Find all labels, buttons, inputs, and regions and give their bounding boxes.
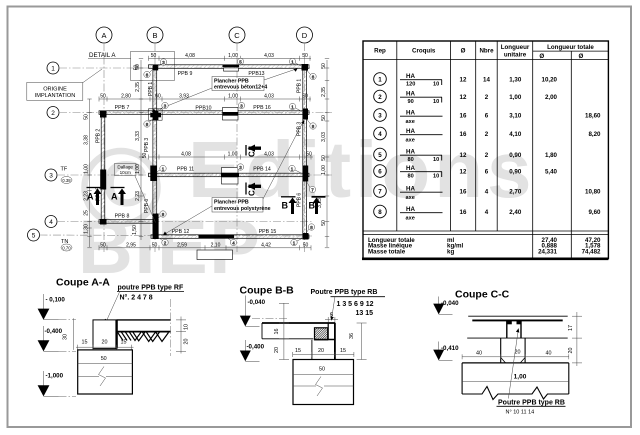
column D/2 — [303, 109, 309, 120]
dimension line mid row1-2 — [99, 94, 311, 102]
svg-text:15: 15 — [295, 348, 301, 354]
coupe C-C footing — [462, 363, 569, 400]
svg-text:Ø: Ø — [539, 53, 544, 60]
svg-text:80: 80 — [408, 174, 414, 180]
watermark — [78, 125, 536, 290]
svg-text:axe: axe — [406, 137, 415, 143]
svg-text:90: 90 — [408, 99, 414, 105]
svg-text:1,00: 1,00 — [228, 94, 238, 100]
origine implantation box — [27, 69, 102, 100]
svg-text:6: 6 — [485, 168, 489, 175]
svg-text:120: 120 — [406, 82, 415, 88]
svg-text:4,08: 4,08 — [185, 53, 195, 59]
rebar schedule table — [362, 41, 608, 259]
dimension chain tick marks — [87, 58, 329, 248]
svg-text:9,60: 9,60 — [588, 209, 601, 216]
svg-text:A: A — [111, 192, 118, 202]
svg-text:PPB 3: PPB 3 — [144, 138, 150, 152]
detail A inner dims — [134, 65, 140, 71]
svg-text:PPB10: PPB10 — [195, 106, 211, 112]
svg-text:Croquis: Croquis — [412, 48, 436, 55]
coupe C-C slab lines — [467, 316, 568, 338]
svg-text:0,90: 0,90 — [509, 168, 522, 175]
coupe B-B dim 36 — [349, 323, 367, 360]
svg-text:-0,040: -0,040 — [441, 300, 459, 307]
svg-text:20: 20 — [274, 347, 280, 353]
axis A — [96, 27, 112, 252]
svg-text:kg: kg — [447, 248, 454, 255]
table row 4 — [374, 127, 601, 143]
svg-text:24,331: 24,331 — [538, 248, 557, 255]
svg-text:IMPLANTATION: IMPLANTATION — [35, 93, 76, 99]
svg-text:PPB 15: PPB 15 — [259, 229, 277, 235]
svg-text:4,08: 4,08 — [181, 152, 191, 158]
svg-text:TF: TF — [61, 167, 68, 173]
section arrow A-A — [87, 188, 127, 206]
svg-text:PPB13: PPB13 — [248, 71, 264, 77]
axis 2 — [47, 107, 332, 119]
node 1 at D/5 — [291, 239, 302, 246]
svg-text:PPB 11: PPB 11 — [177, 167, 194, 173]
svg-text:PPB 16: PPB 16 — [253, 105, 271, 111]
dimension line row2-3 — [142, 152, 313, 160]
coupe A-A level -1,000 — [38, 371, 76, 396]
dimension chain right x327 — [317, 60, 327, 247]
svg-text:Nbre: Nbre — [479, 48, 494, 55]
svg-text:HA: HA — [406, 73, 415, 80]
node 8 at D/5 — [306, 224, 315, 233]
beam PPB 12 + PPB 15 row5 — [151, 229, 309, 239]
svg-text:4: 4 — [49, 219, 53, 226]
svg-text:8,20: 8,20 — [588, 131, 601, 138]
svg-text:20: 20 — [568, 348, 574, 354]
svg-text:unitaire: unitaire — [504, 52, 527, 59]
coupe C-C stem — [507, 321, 522, 338]
svg-text:4,03: 4,03 — [264, 152, 274, 158]
svg-text:13 15: 13 15 — [356, 310, 374, 317]
svg-text:2: 2 — [378, 94, 382, 101]
svg-text:2,35: 2,35 — [135, 82, 141, 92]
svg-text:Coupe B-B: Coupe B-B — [240, 285, 295, 297]
svg-text:PPB 7: PPB 7 — [115, 105, 130, 111]
svg-text:B: B — [152, 31, 157, 40]
svg-text:2: 2 — [485, 152, 489, 159]
node 8 at D/2 — [307, 120, 316, 130]
svg-text:PPB 12: PPB 12 — [172, 229, 190, 235]
svg-text:Dallage: Dallage — [117, 165, 133, 170]
svg-text:0.38: 0.38 — [62, 178, 71, 183]
rebar mark row2 near C — [222, 108, 238, 121]
svg-text:50: 50 — [321, 220, 327, 226]
svg-text:2: 2 — [51, 110, 55, 117]
coupe B-B slab — [262, 323, 335, 339]
svg-text:12: 12 — [460, 168, 467, 175]
beam PPB 1 / PPB 3 / PPB 6 vertical at D — [297, 66, 307, 238]
svg-text:axe: axe — [406, 215, 415, 221]
coupe B-B level -0,040 — [240, 296, 288, 327]
svg-text:poutre PPB type RF: poutre PPB type RF — [118, 285, 184, 292]
axis C — [229, 27, 245, 252]
svg-text:7: 7 — [378, 188, 382, 195]
svg-text:20: 20 — [318, 348, 324, 354]
svg-text:50: 50 — [303, 242, 309, 248]
svg-text:PPB 1: PPB 1 — [148, 82, 154, 96]
svg-text:PPB 2: PPB 2 — [96, 129, 102, 143]
svg-text:16: 16 — [460, 188, 467, 195]
svg-text:Coupe A-A: Coupe A-A — [56, 277, 110, 289]
coupe A-A dim 30 left — [63, 318, 74, 350]
coupe B-B dim 5 — [325, 313, 338, 323]
column D/3 — [303, 166, 309, 182]
table row 7 — [374, 185, 601, 201]
node 1 at B/3 — [157, 165, 167, 172]
svg-text:50: 50 — [321, 115, 327, 121]
node 3 at C/3 — [237, 164, 243, 170]
svg-text:50: 50 — [306, 152, 312, 158]
svg-text:15: 15 — [340, 348, 346, 354]
svg-text:C: C — [248, 190, 257, 196]
coupe C-C dim 40 20 40 — [462, 350, 569, 360]
svg-text:12: 12 — [460, 152, 467, 159]
rebar mark row3 near C — [221, 168, 239, 185]
beam PPB 9 + PPB13 row1 — [149, 65, 310, 77]
node 6 at B/1 — [144, 70, 153, 78]
beam PPB 7 + PPB10 + PPB 16 row2 — [99, 105, 309, 114]
svg-text:D: D — [302, 31, 308, 40]
table row 6 — [374, 165, 558, 180]
svg-text:10: 10 — [184, 324, 190, 330]
svg-text:2,40: 2,40 — [509, 209, 522, 216]
svg-text:HA: HA — [406, 110, 415, 117]
svg-text:Rep: Rep — [374, 48, 386, 55]
node 7 at D/3 — [307, 182, 316, 193]
svg-text:5: 5 — [330, 313, 333, 319]
svg-text:B: B — [282, 201, 289, 211]
svg-text:1,80: 1,80 — [545, 152, 558, 159]
column B/4-5 — [153, 214, 159, 240]
svg-text:axe: axe — [406, 119, 415, 125]
svg-text:Masse totale: Masse totale — [368, 248, 406, 255]
svg-text:16: 16 — [274, 329, 280, 335]
coupe A-A ground hatch — [118, 332, 169, 341]
beam PPB 8 row4 — [99, 214, 157, 224]
table row 2 — [374, 90, 558, 105]
coupe B-B footing — [293, 360, 354, 405]
svg-text:15: 15 — [121, 340, 127, 346]
svg-text:1,30: 1,30 — [84, 224, 90, 234]
svg-text:3,33: 3,33 — [135, 131, 141, 141]
svg-text:50: 50 — [302, 94, 308, 100]
svg-text:ORIGINE: ORIGINE — [43, 87, 67, 93]
coupe A-A level -0,100 — [38, 294, 76, 320]
svg-text:50: 50 — [142, 153, 148, 159]
svg-text:1,50: 1,50 — [132, 225, 138, 235]
svg-text:4,10: 4,10 — [509, 131, 522, 138]
rebar mark row1 near C — [223, 65, 240, 71]
svg-text:1,00: 1,00 — [509, 94, 522, 101]
svg-text:50: 50 — [101, 356, 107, 362]
svg-text:10: 10 — [433, 157, 439, 163]
svg-text:entrevous béton12+4: entrevous béton12+4 — [214, 85, 267, 91]
svg-text:1,00: 1,00 — [321, 165, 327, 175]
column D/1 — [302, 64, 309, 71]
beam PPB 2 vertical at A — [96, 111, 105, 223]
svg-text:17: 17 — [568, 325, 574, 331]
coupe B-B poutre RB block — [312, 323, 335, 360]
svg-text:HA: HA — [406, 165, 415, 172]
svg-text:DETAIL A: DETAIL A — [89, 52, 116, 59]
svg-text:2,70: 2,70 — [509, 188, 522, 195]
svg-text:1,00: 1,00 — [514, 374, 527, 381]
svg-text:PPB 8: PPB 8 — [115, 214, 130, 220]
table row 8 — [374, 205, 601, 221]
svg-text:16: 16 — [460, 209, 467, 216]
svg-text:PPB 9: PPB 9 — [178, 71, 193, 77]
svg-text:50: 50 — [151, 53, 157, 59]
node 5 at C/1 — [237, 58, 243, 64]
dallage box — [115, 164, 156, 223]
svg-text:4: 4 — [485, 188, 489, 195]
axis 3 — [45, 169, 332, 181]
svg-text:74,482: 74,482 — [582, 248, 601, 255]
node 1 at D/2 — [289, 103, 302, 111]
dimension line bottom — [99, 242, 311, 250]
axis B — [147, 27, 163, 252]
rebar position bubbles on plan — [144, 58, 316, 245]
section arrow C-C lower — [246, 183, 261, 197]
svg-text:6: 6 — [485, 112, 489, 119]
coupe B-B dim 15 20 15 — [293, 348, 354, 357]
dimension line top row1 — [149, 53, 312, 61]
svg-text:50: 50 — [321, 155, 327, 161]
svg-text:HA: HA — [406, 186, 415, 193]
svg-text:HA: HA — [406, 149, 415, 156]
column B/1 — [153, 65, 158, 71]
detail A label — [88, 52, 131, 59]
svg-text:entrevous polystyrène: entrevous polystyrène — [214, 206, 271, 212]
svg-text:16: 16 — [460, 131, 467, 138]
svg-text:36: 36 — [349, 333, 355, 339]
svg-text:HA: HA — [406, 128, 415, 135]
node 3 at B/2 — [159, 102, 168, 111]
section arrow B-B — [281, 197, 326, 214]
node 1 at D/1 — [289, 58, 301, 66]
svg-text:20: 20 — [102, 340, 108, 346]
svg-text:15: 15 — [82, 340, 88, 346]
svg-text:2,35: 2,35 — [321, 87, 327, 97]
svg-text:Ø: Ø — [461, 48, 466, 55]
svg-text:10,80: 10,80 — [585, 188, 601, 195]
svg-text:3,93: 3,93 — [179, 94, 189, 100]
svg-text:PPB 6: PPB 6 — [144, 199, 150, 213]
table row 5 — [374, 148, 558, 163]
node 6 at D/1 — [307, 71, 316, 80]
svg-text:5,40: 5,40 — [545, 168, 558, 175]
svg-text:6: 6 — [378, 168, 382, 175]
coupe A-A footing — [78, 350, 133, 394]
svg-text:0,90: 0,90 — [509, 152, 522, 159]
svg-text:2: 2 — [485, 131, 489, 138]
svg-text:3: 3 — [49, 173, 53, 180]
coupe A-A dim 10 20 right — [171, 299, 190, 356]
svg-text:12: 12 — [460, 76, 467, 83]
node 8 at B/4 — [158, 211, 166, 219]
rebar mark row5 near C — [197, 235, 234, 260]
svg-text:-0,410: -0,410 — [441, 345, 459, 352]
svg-text:2,95: 2,95 — [126, 242, 136, 248]
svg-text:1,00: 1,00 — [228, 152, 238, 158]
svg-text:8: 8 — [378, 209, 382, 216]
node 8 at B/2 — [144, 119, 153, 128]
svg-text:1: 1 — [378, 76, 382, 83]
svg-text:2,59: 2,59 — [177, 242, 187, 248]
coupe A-A label poutre PPB type RF — [103, 285, 184, 324]
svg-text:5: 5 — [32, 233, 36, 240]
svg-text:Poutre PPB type RB: Poutre PPB type RB — [498, 400, 565, 407]
svg-text:40: 40 — [476, 351, 482, 357]
svg-text:4: 4 — [485, 209, 489, 216]
svg-text:1 3 5 6 9 12: 1 3 5 6 9 12 — [337, 301, 374, 308]
axis D — [297, 27, 313, 252]
svg-text:1,00: 1,00 — [84, 164, 90, 174]
table row 1 — [374, 73, 558, 88]
svg-text:18,60: 18,60 — [585, 112, 601, 119]
coupe C-C level -0,410 — [433, 342, 459, 361]
axis 5 — [28, 229, 313, 241]
plancher PPB polystyrene box — [163, 120, 304, 235]
svg-text:50: 50 — [134, 65, 140, 71]
svg-text:4,03: 4,03 — [264, 94, 274, 100]
coupe A-A poutre section — [93, 320, 117, 349]
svg-text:30: 30 — [63, 334, 69, 340]
svg-text:12: 12 — [460, 94, 467, 101]
svg-text:-0,400: -0,400 — [247, 343, 265, 350]
svg-text:50: 50 — [152, 242, 158, 248]
node 4 at C/5 — [228, 239, 237, 246]
svg-text:80: 80 — [408, 157, 414, 163]
svg-text:Longueur: Longueur — [501, 44, 530, 51]
column A/3 — [100, 170, 106, 190]
svg-text:10: 10 — [433, 99, 439, 105]
table footer totals — [368, 237, 601, 256]
svg-text:HA: HA — [406, 91, 415, 98]
svg-text:4,03: 4,03 — [264, 53, 274, 59]
dimension chain left x89 — [84, 99, 90, 247]
svg-text:C: C — [248, 151, 257, 157]
svg-text:2: 2 — [485, 94, 489, 101]
level TF 0.38 — [61, 167, 73, 184]
svg-text:50: 50 — [302, 53, 308, 59]
column D/5 — [303, 233, 309, 240]
axis 4 — [45, 216, 312, 228]
svg-text:- 0,100: - 0,100 — [46, 297, 66, 304]
svg-text:4,42: 4,42 — [261, 242, 271, 248]
svg-text:PPB 1: PPB 1 — [297, 79, 303, 93]
svg-text:16: 16 — [460, 112, 467, 119]
svg-text:2,80: 2,80 — [121, 94, 131, 100]
svg-text:50: 50 — [84, 114, 90, 120]
svg-text:N° 10 11 14: N° 10 11 14 — [506, 410, 535, 416]
svg-text:50: 50 — [100, 242, 106, 248]
svg-text:Longueur totale: Longueur totale — [547, 44, 594, 51]
svg-text:Plancher PPB: Plancher PPB — [214, 78, 249, 84]
svg-text:A: A — [87, 192, 94, 202]
section arrow C-C upper — [246, 145, 261, 158]
svg-text:14: 14 — [483, 76, 490, 83]
svg-text:60: 60 — [155, 94, 161, 100]
svg-text:2,10: 2,10 — [211, 242, 221, 248]
svg-text:1: 1 — [51, 66, 55, 73]
beam PPB 1 / PPB 3 / PPB 6 vertical at B — [144, 66, 157, 238]
svg-text:-0,040: -0,040 — [248, 299, 266, 306]
coupe C-C dims 17 20 right — [568, 312, 582, 366]
coupe C-C level -0,040 — [433, 297, 459, 315]
svg-text:PPB 14: PPB 14 — [253, 167, 271, 173]
svg-text:Ø: Ø — [578, 53, 583, 60]
column A/2 — [100, 111, 107, 118]
coupe B-B level -0,400 — [240, 340, 265, 361]
level TN 0.70 — [61, 239, 72, 251]
svg-text:10: 10 — [433, 82, 439, 88]
beam PPB 11 + PPB 14 row3 — [149, 167, 310, 177]
svg-text:3,38: 3,38 — [84, 135, 90, 145]
svg-text:-0,400: -0,400 — [45, 328, 63, 335]
coupe C-C pedestal — [501, 338, 525, 363]
svg-text:HA: HA — [406, 206, 415, 213]
svg-text:PPB 6: PPB 6 — [297, 193, 303, 207]
svg-text:1,00: 1,00 — [228, 53, 238, 59]
coupe B-B dims 16 20 — [274, 303, 289, 360]
coupe A-A dim 15 20 15 — [76, 340, 134, 350]
svg-text:C: C — [234, 31, 240, 40]
column B/2 cross — [149, 109, 163, 120]
axis 1 — [47, 62, 312, 74]
svg-text:25: 25 — [84, 210, 90, 216]
svg-text:-1,000: -1,000 — [46, 373, 64, 380]
node 1 at D/3 — [289, 165, 302, 173]
svg-text:10,20: 10,20 — [542, 76, 558, 83]
svg-text:0.70: 0.70 — [62, 246, 71, 251]
svg-text:axe: axe — [406, 195, 415, 201]
svg-text:5: 5 — [378, 152, 382, 159]
table frame — [362, 41, 608, 259]
svg-text:Poutre PPB type RB: Poutre PPB type RB — [311, 289, 378, 296]
svg-text:50: 50 — [100, 94, 106, 100]
svg-text:4: 4 — [378, 131, 382, 138]
svg-text:3,10: 3,10 — [509, 112, 522, 119]
node 3 at C/2 — [238, 102, 244, 108]
column B/3 — [150, 166, 156, 182]
svg-text:A: A — [101, 31, 106, 40]
svg-text:40: 40 — [546, 351, 552, 357]
svg-text:Coupe C-C: Coupe C-C — [455, 289, 510, 301]
dimension chain inner x139 — [132, 60, 141, 240]
node 3 at B/1 — [158, 59, 167, 67]
table row 3 — [374, 109, 601, 125]
node 2 at B/5 — [159, 238, 169, 246]
coupe B-B label poutre PPB type RB — [311, 289, 386, 321]
svg-text:3: 3 — [378, 112, 382, 119]
svg-text:1,30: 1,30 — [509, 76, 522, 83]
plancher PPB beton box — [152, 69, 298, 113]
detail A box — [130, 52, 174, 81]
svg-text:10: 10 — [433, 174, 439, 180]
svg-text:20: 20 — [184, 339, 190, 345]
svg-text:N°. 2 4 7 8: N°. 2 4 7 8 — [120, 294, 153, 302]
svg-text:Plancher PPB: Plancher PPB — [214, 199, 249, 205]
coupe A-A level -0,400 — [38, 326, 76, 351]
table header — [374, 44, 594, 60]
